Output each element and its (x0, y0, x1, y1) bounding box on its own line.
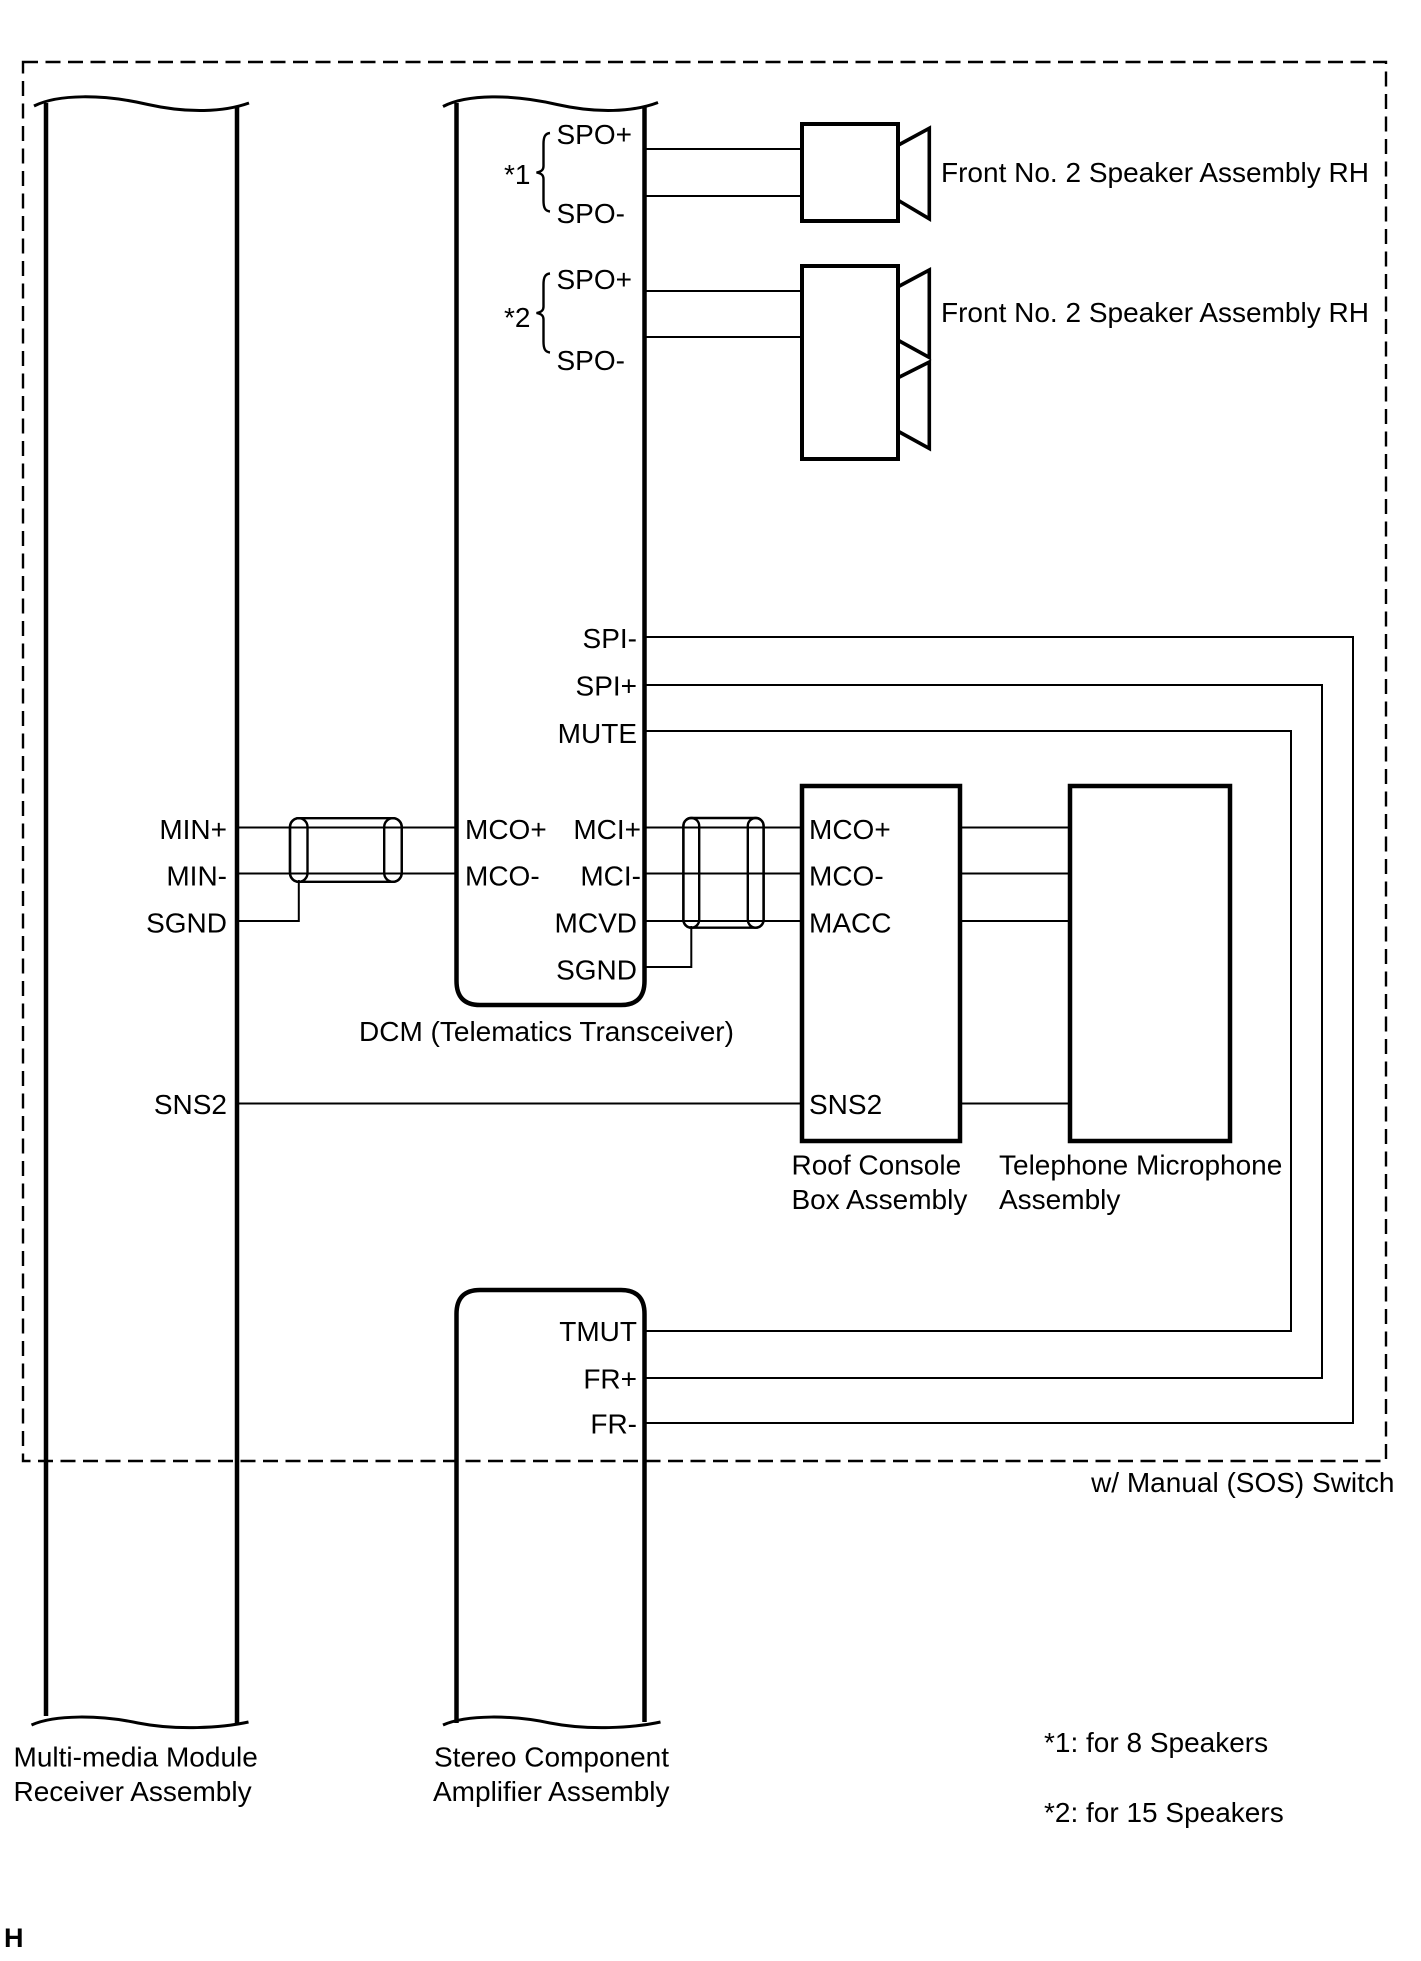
svg-text:Roof Console: Roof Console (792, 1150, 962, 1181)
shield left capsule B (384, 818, 402, 882)
svg-text:MCO-: MCO- (809, 861, 884, 892)
brace *2 (537, 274, 551, 353)
wire MCI+ to MCO+ roof (645, 827, 802, 829)
svg-text:Stereo Component: Stereo Component (434, 1742, 669, 1773)
svg-text:H: H (4, 1923, 24, 1953)
wire roof MACC to mic (960, 920, 1070, 922)
Stereo Component Amplifier Assembly outline (457, 1290, 645, 1723)
Roof Console Box Assembly (802, 786, 960, 1141)
svg-text:MACC: MACC (809, 908, 891, 939)
svg-text:SPO-: SPO- (557, 345, 625, 376)
svg-text:SPI-: SPI- (583, 623, 637, 654)
DCM (Telematics Transceiver) outline (457, 103, 645, 1005)
svg-text:SNS2: SNS2 (154, 1089, 227, 1120)
svg-text:SGND: SGND (556, 955, 637, 986)
shield right capsule A (683, 818, 699, 928)
shield right capsule B (748, 818, 764, 928)
svg-text:MCO-: MCO- (465, 861, 540, 892)
wire SPO+ *2 (645, 290, 802, 292)
svg-text:*1: for 8 Speakers: *1: for 8 Speakers (1044, 1727, 1268, 1758)
wire MIN+ to MCO+ (237, 827, 456, 829)
wire SPO- *1 (645, 195, 802, 197)
shield right outer (683, 818, 763, 928)
svg-text:SPO-: SPO- (557, 198, 625, 229)
svg-text:SGND: SGND (146, 908, 227, 939)
wire MIN- to MCO- (237, 873, 456, 875)
svg-text:Front No. 2 Speaker Assembly R: Front No. 2 Speaker Assembly RH (941, 297, 1369, 328)
svg-text:MCVD: MCVD (555, 908, 637, 939)
wire SGND shield drain left (237, 880, 299, 921)
wire roof MCO- to mic (960, 873, 1070, 875)
svg-text:MUTE: MUTE (558, 718, 637, 749)
Multi-media Module Receiver Assembly left edge (44, 103, 49, 1716)
svg-text:Multi-media Module: Multi-media Module (14, 1742, 258, 1773)
svg-text:MCO+: MCO+ (809, 814, 891, 845)
wire SPI- to FR- (644, 637, 1353, 1423)
shield left capsule A (290, 818, 308, 882)
svg-text:w/ Manual (SOS) Switch: w/ Manual (SOS) Switch (1090, 1467, 1394, 1498)
wire SPI+ to FR+ (644, 685, 1322, 1378)
dashed enclosure w/ Manual (SOS) Switch (23, 62, 1386, 1461)
svg-text:SNS2: SNS2 (809, 1089, 882, 1120)
svg-text:TMUT: TMUT (559, 1316, 637, 1347)
Multi-media Module Receiver Assembly right edge (235, 106, 240, 1723)
svg-text:*2: for 15 Speakers: *2: for 15 Speakers (1044, 1797, 1284, 1828)
brace *1 (537, 133, 551, 212)
wire MCI- to MCO- roof (645, 873, 802, 875)
svg-text:Telephone Microphone: Telephone Microphone (999, 1150, 1282, 1181)
wire SGND shield drain right (645, 926, 691, 967)
svg-text:MCO+: MCO+ (465, 814, 547, 845)
svg-text:Amplifier Assembly: Amplifier Assembly (433, 1776, 670, 1807)
wire SPO- *2 (645, 336, 802, 338)
svg-text:Front No. 2 Speaker Assembly R: Front No. 2 Speaker Assembly RH (941, 157, 1369, 188)
speaker SP1 horn (899, 128, 930, 219)
svg-text:MCI-: MCI- (580, 861, 641, 892)
Telephone Microphone Assembly (1070, 786, 1230, 1141)
speaker SP2 horn upper (899, 270, 930, 358)
shield left outer (290, 818, 402, 882)
Stereo Component Amplifier Assembly torn bottom edge (443, 1717, 661, 1728)
wire MUTE to TMUT (644, 731, 1291, 1331)
DCM torn top edge (443, 97, 658, 111)
svg-text:Assembly: Assembly (999, 1184, 1120, 1215)
svg-text:FR+: FR+ (583, 1364, 637, 1395)
wire MCVD to MACC (645, 920, 802, 922)
svg-text:MIN-: MIN- (166, 861, 227, 892)
wire roof SNS2 to mic (960, 1103, 1070, 1105)
svg-text:SPO+: SPO+ (557, 119, 632, 150)
wire SNS2 (237, 1103, 802, 1105)
Multi-media Module Receiver Assembly torn top edge (34, 97, 249, 111)
speaker SP2 horn lower (899, 362, 930, 449)
speaker SP2 body (802, 266, 898, 459)
wire SPO+ *1 (645, 148, 802, 150)
svg-text:DCM (Telematics Transceiver): DCM (Telematics Transceiver) (359, 1016, 734, 1047)
speaker SP1 body (802, 124, 898, 221)
svg-text:SPO+: SPO+ (557, 264, 632, 295)
Multi-media Module Receiver Assembly torn bottom edge (32, 1717, 249, 1728)
svg-text:Receiver Assembly: Receiver Assembly (14, 1776, 252, 1807)
svg-text:*2: *2 (504, 302, 530, 333)
svg-text:*1: *1 (504, 159, 530, 190)
svg-text:MIN+: MIN+ (159, 814, 227, 845)
svg-text:SPI+: SPI+ (576, 671, 637, 702)
wire roof MCO+ to mic (960, 827, 1070, 829)
svg-text:MCI+: MCI+ (573, 814, 641, 845)
svg-text:FR-: FR- (590, 1409, 637, 1440)
svg-text:Box Assembly: Box Assembly (792, 1184, 968, 1215)
